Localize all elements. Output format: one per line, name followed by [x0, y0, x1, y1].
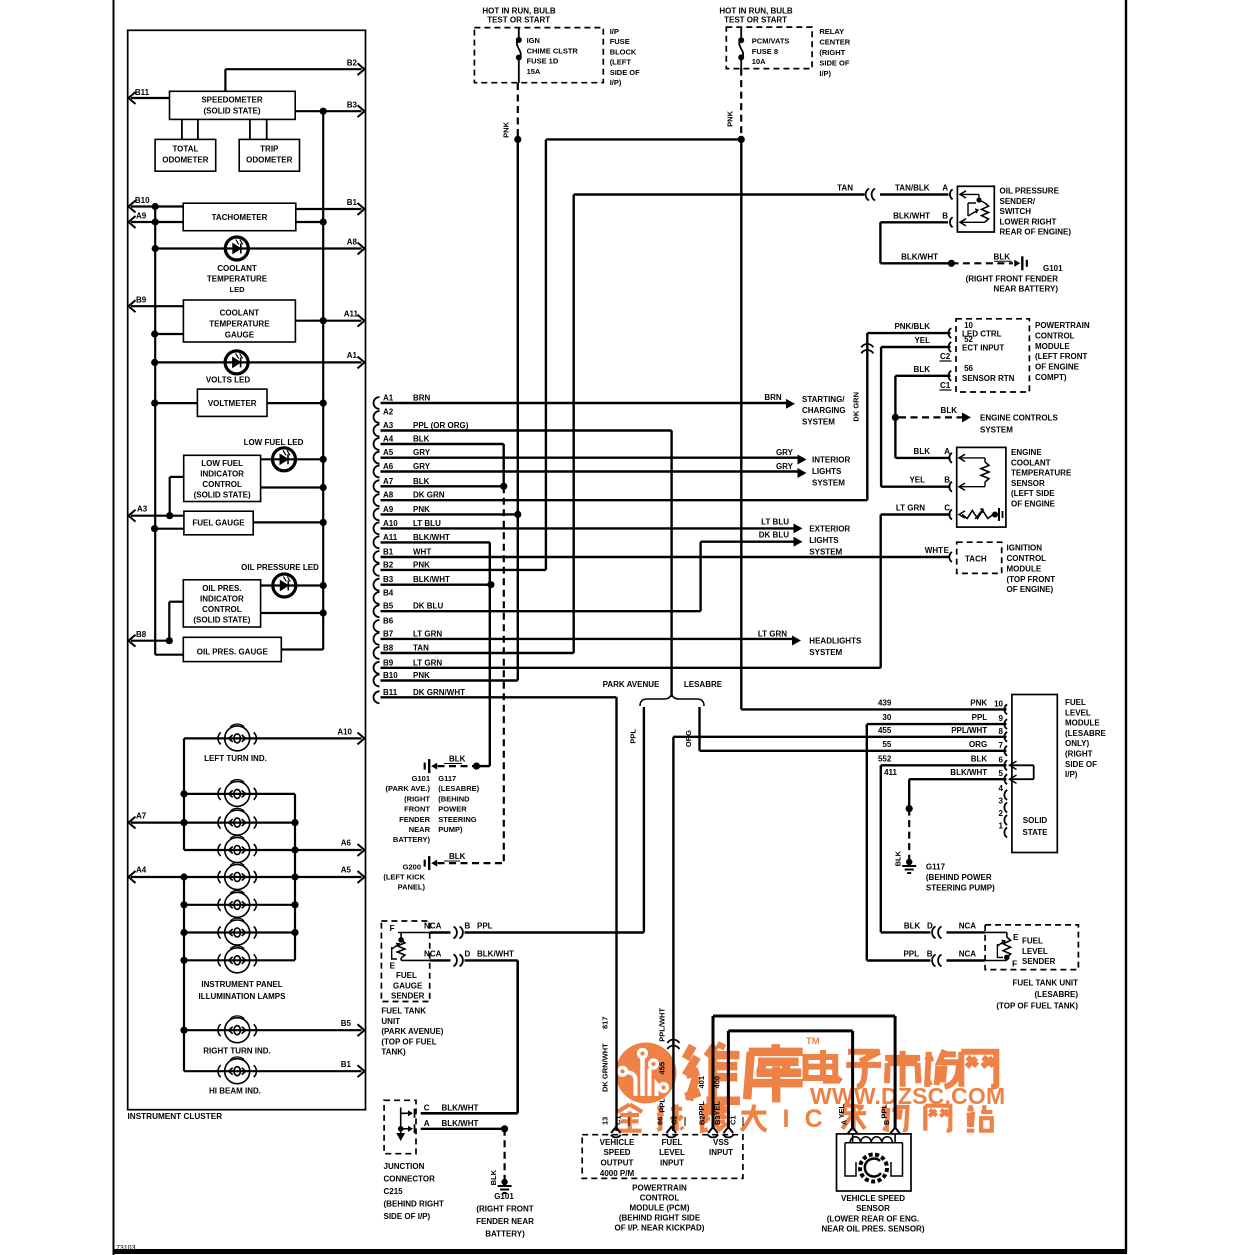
cluster connector pin B1 [374, 551, 380, 563]
page left border [113, 0, 115, 1255]
svg-text:OIL PRES.: OIL PRES. [202, 584, 241, 593]
svg-text:8: 8 [999, 727, 1004, 736]
svg-text:C: C [805, 1105, 823, 1133]
svg-text:BLK/WHT: BLK/WHT [442, 1104, 479, 1113]
PPL/WHT riser module pin8 to PCM 66 [672, 737, 674, 1131]
svg-text:10A: 10A [752, 57, 766, 66]
svg-text:FRONT: FRONT [404, 805, 430, 814]
cluster connector pin A7 [374, 480, 380, 492]
svg-text:BLK/WHT: BLK/WHT [413, 533, 450, 542]
fuel level module pin 5 [1004, 774, 1007, 784]
svg-text:HI BEAM IND.: HI BEAM IND. [209, 1087, 261, 1096]
svg-text:B9: B9 [383, 658, 394, 667]
svg-text:PPL/WHT: PPL/WHT [658, 1008, 667, 1042]
svg-text:SYSTEM: SYSTEM [809, 648, 842, 657]
fuse PCM/VATS [740, 27, 742, 40]
wire B3 BLK/WHT [381, 584, 491, 586]
svg-text:LIGHTS: LIGHTS [812, 467, 842, 476]
svg-text:BATTERY): BATTERY) [393, 835, 431, 844]
svg-text:NEAR: NEAR [409, 825, 431, 834]
svg-text:COOLANT: COOLANT [1011, 458, 1051, 467]
wire B1 tach [296, 208, 362, 210]
svg-text:A3: A3 [383, 421, 394, 430]
oil pres indicator control [183, 580, 260, 627]
junction connector C215 [384, 1100, 416, 1153]
PPL riser to park ave fuel sender [643, 707, 645, 933]
tachometer [183, 203, 296, 231]
oil pres LED wire [261, 584, 324, 586]
YEL riser PCM 52 to ECT B [880, 347, 882, 487]
svg-text:PNK: PNK [413, 505, 430, 514]
BLK dashed to engine controls system [899, 416, 963, 418]
svg-text:INSTRUMENT CLUSTER: INSTRUMENT CLUSTER [128, 1112, 223, 1121]
svg-text:C: C [424, 1104, 430, 1113]
wire A10 LT BLU [381, 527, 797, 529]
svg-text:OF ENGINE): OF ENGINE) [1007, 585, 1054, 594]
svg-text:HOT IN RUN, BULB: HOT IN RUN, BULB [719, 7, 793, 16]
wire 55 ORG [700, 750, 1007, 752]
svg-text:BLOCK: BLOCK [610, 47, 637, 56]
svg-text:OIL PRESSURE LED: OIL PRESSURE LED [241, 563, 319, 572]
watermark char quan [617, 1104, 642, 1130]
svg-text:HOT IN RUN, BULB: HOT IN RUN, BULB [482, 7, 556, 16]
svg-text:C1: C1 [940, 381, 951, 390]
right turn indicator lamp [218, 1016, 256, 1043]
svg-text:PPL: PPL [903, 950, 919, 959]
ground G200 [431, 860, 437, 867]
svg-text:BLK: BLK [904, 921, 921, 930]
svg-text:10: 10 [994, 699, 1003, 708]
watermark char ku [747, 1044, 803, 1102]
svg-text:B1: B1 [383, 548, 394, 557]
vehicle speed sensor box [837, 1134, 912, 1191]
cluster connector pin A1 [374, 397, 380, 409]
svg-text:SYSTEM: SYSTEM [812, 479, 845, 488]
svg-text:ENGINE CONTROLS: ENGINE CONTROLS [980, 413, 1058, 422]
watermark char chang [925, 1050, 958, 1087]
svg-text:OIL PRESSURE: OIL PRESSURE [1000, 187, 1060, 196]
svg-text:UNIT: UNIT [381, 1017, 400, 1026]
svg-text:PNK: PNK [970, 698, 987, 707]
svg-text:401: 401 [697, 1076, 706, 1089]
svg-text:(LOWER REAR OF ENG.: (LOWER REAR OF ENG. [827, 1214, 919, 1223]
svg-text:F: F [1012, 959, 1017, 969]
svg-text:A7: A7 [383, 477, 394, 486]
fuel gauge [184, 511, 253, 535]
BLK/WHT to G101/G117 ground [477, 765, 490, 767]
svg-text:CONTROL: CONTROL [202, 480, 242, 489]
svg-text:INTERIOR: INTERIOR [812, 456, 850, 465]
svg-text:BLK/WHT: BLK/WHT [950, 768, 987, 777]
svg-text:CONTROL: CONTROL [1035, 331, 1075, 340]
svg-text:B1: B1 [347, 198, 358, 207]
svg-text:(RIGHT FRONT FENDER: (RIGHT FRONT FENDER [966, 274, 1059, 283]
LT GRN riser B9 to ECT C [880, 515, 882, 668]
left turn indicator lamp [218, 724, 256, 751]
cluster connector pin A3 [374, 425, 380, 437]
powertrain control module PCM bottom [582, 1135, 743, 1179]
BLK/WHT riser to junction connector [516, 960, 519, 1113]
svg-text:BLK/WHT: BLK/WHT [477, 949, 514, 958]
svg-text:552: 552 [878, 754, 892, 763]
VSS internals [852, 1134, 854, 1143]
svg-text:A6: A6 [383, 462, 394, 471]
arrow headlights system [792, 636, 801, 646]
svg-text:FUEL GAUGE: FUEL GAUGE [192, 519, 245, 528]
coolant temperature gauge [183, 300, 295, 342]
relay PNK dashed below fuse [740, 69, 742, 140]
svg-text:OF ENGINE: OF ENGINE [1011, 500, 1056, 509]
svg-text:YEL: YEL [914, 336, 930, 345]
svg-text:CHIME CLSTR: CHIME CLSTR [527, 46, 579, 55]
wire A5 GRY [381, 457, 801, 459]
cluster connector pin B5 [374, 605, 380, 617]
svg-text:G101: G101 [1043, 264, 1063, 273]
ORG riser to fuel level module pin 7 [698, 707, 700, 751]
svg-text:TEMPERATURE: TEMPERATURE [207, 275, 268, 284]
svg-text:400: 400 [713, 1076, 722, 1089]
svg-text:B5: B5 [383, 602, 394, 611]
svg-text:PANEL): PANEL) [398, 883, 426, 892]
svg-text:PPL: PPL [658, 1098, 667, 1113]
svg-text:INSTRUMENT PANEL: INSTRUMENT PANEL [201, 980, 282, 989]
svg-text:GAUGE: GAUGE [225, 331, 255, 340]
svg-text:LEFT TURN IND.: LEFT TURN IND. [204, 754, 267, 763]
wires speedo-total odometer [181, 119, 183, 139]
VSS wire YEL 400 [851, 1031, 854, 1129]
svg-text:G101: G101 [494, 1192, 514, 1201]
svg-text:MODULE: MODULE [1035, 342, 1070, 351]
svg-text:(TOP OF FUEL: (TOP OF FUEL [381, 1037, 436, 1046]
park ave sender F wire NCA B PPL [430, 931, 451, 933]
svg-text:SENSOR RTN: SENSOR RTN [962, 374, 1015, 383]
wire B10 [131, 205, 183, 207]
svg-text:OF I/P. NEAR KICKPAD): OF I/P. NEAR KICKPAD) [615, 1224, 705, 1233]
cluster connector pin A4 [374, 438, 380, 450]
fuel tank unit lesabre box [985, 925, 1078, 970]
svg-text:SIDE OF: SIDE OF [1065, 760, 1097, 769]
svg-text:LEVEL: LEVEL [1065, 708, 1091, 717]
svg-text:INDICATOR: INDICATOR [200, 595, 244, 604]
page right border [1125, 0, 1127, 1252]
svg-text:6: 6 [999, 755, 1004, 764]
svg-text:(RIGHT: (RIGHT [404, 794, 430, 803]
svg-text:RELAY: RELAY [819, 27, 844, 36]
svg-text:TAN/BLK: TAN/BLK [895, 184, 930, 193]
svg-text:SWITCH: SWITCH [1000, 207, 1032, 216]
cluster connector pin B4 [374, 592, 380, 604]
svg-text:I/P): I/P) [819, 69, 831, 78]
svg-text:FENDER NEAR: FENDER NEAR [476, 1217, 534, 1226]
svg-text:B10: B10 [135, 196, 150, 205]
wire B10 PNK [381, 679, 518, 681]
svg-text:LT GRN: LT GRN [413, 629, 442, 638]
svg-text:EXTERIOR: EXTERIOR [809, 525, 850, 534]
svg-text:SYSTEM: SYSTEM [809, 548, 842, 557]
svg-text:OIL PRES. GAUGE: OIL PRES. GAUGE [197, 648, 269, 657]
svg-text:TEST OR START: TEST OR START [487, 16, 550, 25]
wire gauge low left [155, 333, 184, 335]
svg-text:FUEL: FUEL [1065, 698, 1086, 707]
low fuel indicator control [184, 455, 261, 501]
svg-text:B2: B2 [698, 1115, 707, 1125]
oil ctl left corner wire [169, 601, 183, 603]
arrows interior lights [798, 455, 807, 465]
svg-text:SIDE OF: SIDE OF [819, 59, 849, 68]
A3 riser PPL(OR ORG) [670, 431, 672, 698]
svg-text:MODULE: MODULE [1065, 719, 1100, 728]
svg-text:B3: B3 [383, 575, 394, 584]
svg-text:PNK/BLK: PNK/BLK [894, 322, 930, 331]
svg-text:NCA: NCA [959, 950, 977, 959]
svg-text:STEERING PUMP): STEERING PUMP) [926, 884, 995, 893]
svg-text:POWERTRAIN: POWERTRAIN [632, 1184, 687, 1193]
svg-text:ENGINE: ENGINE [1011, 448, 1042, 457]
svg-text:VEHICLE: VEHICLE [600, 1138, 635, 1147]
coolant temperature LED [225, 237, 248, 260]
svg-text:A: A [424, 1119, 430, 1128]
svg-text:FUSE: FUSE [610, 37, 630, 46]
svg-text:(LEFT KICK: (LEFT KICK [383, 873, 425, 882]
C215 internals [400, 1108, 402, 1138]
svg-text:C2: C2 [940, 352, 951, 361]
svg-text:FUEL: FUEL [1022, 937, 1043, 946]
wire 411 BLK/WHT to G117 [909, 778, 1006, 780]
svg-text:B7: B7 [383, 629, 394, 638]
svg-text:PPL: PPL [972, 713, 988, 722]
svg-text:TACH: TACH [965, 555, 987, 564]
wire 455 PPL/WHT [673, 736, 1006, 738]
svg-text:MODULE: MODULE [1007, 564, 1042, 573]
fuel level module pin 3 [1004, 803, 1007, 813]
svg-text:PCM/VATS: PCM/VATS [752, 37, 790, 46]
wire 30 PPL riser to lesabre sender F [867, 723, 1007, 725]
svg-text:PNK: PNK [502, 121, 511, 137]
svg-text:(TOP OF FUEL TANK): (TOP OF FUEL TANK) [996, 1002, 1078, 1011]
wire B5 right turn [184, 1029, 362, 1031]
svg-text:LT GRN: LT GRN [896, 504, 925, 513]
illumination lamp row 8 [184, 959, 295, 961]
oil gauge left wire [155, 654, 183, 656]
svg-text:LOW FUEL: LOW FUEL [201, 459, 243, 468]
IGN PNK riser (fuse to B10) [517, 83, 519, 139]
lamp bus right [294, 794, 296, 960]
svg-text:LED: LED [230, 285, 246, 294]
illumination lamp row 7 [184, 931, 295, 933]
svg-text:TANK): TANK) [381, 1048, 406, 1057]
svg-text:A5: A5 [383, 448, 394, 457]
cluster connector pin B2 [374, 564, 380, 576]
oil pressure LED [273, 574, 296, 597]
B2 PNK riser [545, 139, 547, 570]
svg-text:DK BLU: DK BLU [759, 531, 789, 540]
svg-text:A9: A9 [136, 212, 147, 221]
svg-text:BLK/WHT: BLK/WHT [413, 575, 450, 584]
svg-text:GAUGE: GAUGE [393, 981, 423, 990]
svg-text:B6: B6 [383, 617, 394, 626]
svg-text:66: 66 [656, 1117, 665, 1125]
svg-text:(BEHIND: (BEHIND [438, 794, 470, 803]
wires speedo-trip odometer [249, 119, 251, 139]
svg-text:TEMPERATURE: TEMPERATURE [1011, 469, 1072, 478]
svg-text:BLK: BLK [941, 406, 958, 415]
svg-text:REAR OF ENGINE): REAR OF ENGINE) [1000, 228, 1072, 237]
svg-text:JUNCTION: JUNCTION [384, 1162, 425, 1171]
svg-text:G101: G101 [412, 774, 430, 783]
svg-text:LOWER RIGHT: LOWER RIGHT [1000, 217, 1057, 226]
fuel level module pin 4 [1004, 790, 1007, 800]
arrows exterior lights [794, 523, 803, 533]
svg-text:CHARGING: CHARGING [802, 406, 846, 415]
svg-text:A10: A10 [383, 519, 398, 528]
BLK dashed to G101 bottom [504, 1129, 506, 1180]
svg-text:NEAR BATTERY): NEAR BATTERY) [994, 285, 1059, 294]
svg-text:CONTROL: CONTROL [202, 605, 242, 614]
park ave sender E wire NCA D BLK/WHT [430, 959, 451, 961]
watermark char dian [806, 1050, 841, 1081]
wire B11 [131, 97, 170, 99]
svg-text:GRY: GRY [413, 462, 431, 471]
svg-text:LEVEL: LEVEL [1022, 947, 1048, 956]
svg-text:G117: G117 [926, 863, 946, 872]
svg-text:B1: B1 [341, 1060, 352, 1069]
svg-text:YEL: YEL [909, 476, 925, 485]
wire B11 DK GRN/WHT [381, 696, 617, 698]
wire A3 PPL (OR ORG) [381, 429, 672, 431]
svg-text:SYSTEM: SYSTEM [802, 417, 835, 426]
svg-text:A10: A10 [337, 728, 352, 737]
svg-text:455: 455 [878, 726, 892, 735]
svg-text:ODOMETER: ODOMETER [246, 156, 292, 165]
svg-text:2: 2 [999, 809, 1004, 818]
svg-text:BLK: BLK [413, 435, 430, 444]
svg-text:STARTING/: STARTING/ [802, 395, 845, 404]
junction B3/bus [320, 108, 327, 115]
svg-text:B2: B2 [347, 59, 358, 68]
wire tach to bus [296, 221, 323, 223]
VSS wire PPL 401 [894, 1016, 897, 1129]
watermark char zi [846, 1052, 881, 1087]
svg-text:GRY: GRY [776, 448, 794, 457]
fuel tank unit park avenue box [381, 921, 429, 1002]
svg-text:TAN: TAN [413, 644, 429, 653]
svg-text:PPL: PPL [629, 729, 638, 744]
wire B5 DK BLU [381, 610, 701, 612]
arrow starting/charging system [786, 399, 795, 409]
instrument cluster box [128, 30, 366, 1109]
svg-text:B8: B8 [136, 630, 147, 639]
cluster connector pin A10 [374, 522, 380, 534]
wire B9 cluster [131, 305, 183, 307]
oil gauge right wire [281, 648, 323, 650]
svg-text:BATTERY): BATTERY) [485, 1230, 525, 1239]
wire 552 BLK riser to lesabre sender E [881, 764, 1007, 766]
svg-text:PPL: PPL [880, 1104, 889, 1119]
svg-text:YEL: YEL [713, 1101, 722, 1116]
svg-text:15A: 15A [527, 67, 541, 76]
illumination lamp row 2 [184, 793, 295, 795]
svg-text:SIDE OF I/P): SIDE OF I/P) [384, 1212, 431, 1221]
svg-text:FUEL TANK UNIT: FUEL TANK UNIT [1013, 979, 1079, 988]
svg-text:E: E [1013, 932, 1019, 942]
svg-text:PPL: PPL [697, 1101, 706, 1116]
svg-text:A1: A1 [347, 351, 358, 360]
svg-text:B10: B10 [383, 671, 398, 680]
svg-text:(LEFT SIDE: (LEFT SIDE [1011, 489, 1055, 498]
fuel level module pin 1 [1004, 828, 1007, 838]
svg-text:B11: B11 [135, 88, 150, 97]
svg-text:E: E [944, 546, 950, 555]
junction B3/BLKWHT riser [487, 581, 494, 588]
svg-text:B: B [465, 922, 471, 931]
fuel level module pin 8 [1004, 732, 1007, 742]
svg-text:STEERING: STEERING [438, 815, 477, 824]
svg-text:I/P): I/P) [1065, 770, 1078, 779]
watermark char wang [961, 1052, 996, 1087]
svg-text:ORG: ORG [684, 730, 693, 747]
svg-text:B: B [927, 950, 933, 959]
svg-text:FUEL TANK: FUEL TANK [381, 1007, 426, 1016]
svg-text:9: 9 [999, 714, 1004, 723]
svg-text:13: 13 [601, 1117, 610, 1125]
watermark char qiu [657, 1104, 683, 1130]
svg-text:BLK/WHT: BLK/WHT [893, 211, 930, 220]
svg-text:B8: B8 [383, 644, 394, 653]
svg-text:(LEFT: (LEFT [610, 58, 632, 67]
svg-text:FENDER: FENDER [399, 815, 430, 824]
cluster connector pin B8 [374, 647, 380, 659]
watermark char cai [841, 1105, 866, 1131]
svg-text:DK GRN: DK GRN [413, 491, 445, 500]
svg-text:TAN: TAN [837, 184, 853, 193]
svg-text:(RIGHT: (RIGHT [1065, 750, 1093, 759]
C215 pin A wire [421, 1128, 505, 1130]
svg-text:LOW FUEL LED: LOW FUEL LED [244, 438, 304, 447]
fuel level module pin 10 [1004, 704, 1007, 714]
wire B8 cluster [131, 640, 169, 642]
cluster connector pin A2 [374, 411, 380, 423]
wire B7 LT GRN [381, 638, 796, 640]
wire B1 WHT [381, 556, 949, 558]
fuel level module pin 9 [1004, 719, 1007, 729]
svg-text:(TOP FRONT: (TOP FRONT [1007, 575, 1056, 584]
svg-text:BRN: BRN [413, 394, 431, 403]
svg-text:D: D [465, 949, 471, 958]
svg-text:BLK: BLK [914, 447, 931, 456]
TAN riser [573, 195, 575, 654]
svg-text:NCA: NCA [959, 921, 977, 930]
svg-text:(RIGHT: (RIGHT [819, 48, 845, 57]
svg-text:SOLID: SOLID [1023, 816, 1048, 825]
wire A4 A5 lamp row 5 [131, 876, 362, 878]
svg-text:LT GRN: LT GRN [413, 658, 442, 667]
cluster connector pin A5 [374, 452, 380, 464]
wire A10 left turn [184, 737, 362, 739]
svg-text:PPL: PPL [477, 922, 493, 931]
low fuel LED wire [261, 458, 324, 460]
ECT internals [959, 454, 965, 461]
svg-text:BRN: BRN [764, 393, 782, 402]
svg-text:LEVEL: LEVEL [659, 1148, 685, 1157]
svg-text:DK GRN/WHT: DK GRN/WHT [601, 1043, 610, 1092]
svg-text:BLK: BLK [914, 365, 931, 374]
svg-text:LESABRE: LESABRE [684, 680, 723, 689]
svg-text:55: 55 [882, 740, 891, 749]
wire A6 GRY [381, 470, 801, 472]
svg-text:INPUT: INPUT [709, 1148, 733, 1157]
fuel level sender internals [985, 931, 1007, 933]
cluster connector pin B10 [374, 675, 380, 687]
